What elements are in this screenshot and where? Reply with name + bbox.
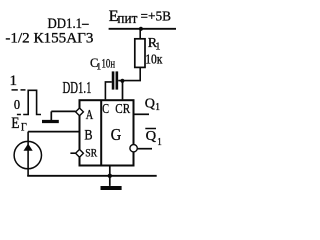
- svg-text:Г: Г: [21, 121, 27, 133]
- net Епит=+5В label: [109, 8, 171, 27]
- wire R1 bottom lead to node: [118, 67, 140, 80]
- capacitor C1 plates: [112, 71, 115, 89]
- svg-text:Q: Q: [145, 97, 155, 112]
- ground bottom bar: [101, 186, 122, 190]
- ground at pin A: [50, 111, 52, 120]
- svg-text:1: 1: [10, 73, 18, 89]
- svg-text:Е: Е: [11, 115, 19, 132]
- svg-text:пит: пит: [117, 11, 138, 27]
- wire generator vertical: [27, 132, 29, 176]
- resistor R1 body: [135, 39, 145, 68]
- wire input A from ground: [51, 110, 75, 112]
- op-amp U1: IC box K155AG3: [80, 100, 134, 165]
- wire C1 left lead to pin C: [105, 82, 111, 100]
- junction dot C1/R1/CR node: [120, 79, 124, 83]
- pulse waveform: [23, 90, 41, 114]
- svg-text:DD1.1: DD1.1: [63, 78, 92, 97]
- label С1 10н: [90, 56, 115, 72]
- wire output Q1: [135, 113, 150, 115]
- wire power rail: [109, 28, 176, 30]
- svg-text:A: A: [86, 108, 94, 123]
- dynamic input diamond pin A: [76, 108, 84, 116]
- wire bottom ground rail: [27, 175, 157, 177]
- wire output Q1bar: [137, 148, 152, 150]
- svg-text:=+5В: =+5В: [141, 10, 172, 25]
- generator arrow head: [24, 144, 33, 151]
- svg-text:1: 1: [155, 42, 160, 53]
- svg-text:Q: Q: [146, 129, 157, 144]
- label R1: [148, 36, 161, 53]
- junction dot power rail / R1: [139, 27, 143, 31]
- svg-text:CR: CR: [115, 102, 130, 117]
- label ЕГ: [11, 115, 27, 133]
- dashed level-0 line: [17, 114, 21, 116]
- junction dot bottom rail: [108, 174, 112, 178]
- dashed level-1 line: [12, 89, 18, 91]
- svg-text:0: 0: [14, 97, 20, 112]
- generator EГ circle: [14, 141, 41, 168]
- wire R1 top lead: [139, 29, 141, 39]
- svg-text:10н: 10н: [102, 56, 116, 70]
- svg-text:G: G: [111, 125, 122, 144]
- wire node to pin CR: [122, 81, 124, 100]
- svg-text:1: 1: [157, 137, 162, 148]
- svg-text:SR: SR: [85, 146, 97, 160]
- inversion circle output Q1bar: [130, 145, 137, 152]
- wire input B: [28, 131, 79, 133]
- svg-text:B: B: [84, 127, 92, 143]
- dynamic input diamond pin SR: [76, 149, 84, 157]
- svg-text:-1/2 К155АГ3: -1/2 К155АГ3: [5, 31, 93, 47]
- label Q1: [145, 97, 160, 114]
- svg-text:10к: 10к: [145, 53, 162, 68]
- IC divider line: [100, 100, 102, 165]
- label Q1bar with overline: [146, 129, 162, 148]
- wire SR stub: [70, 152, 75, 154]
- svg-text:1: 1: [155, 102, 160, 113]
- pin label C CR: [102, 102, 130, 117]
- wire IC bottom to ground: [109, 166, 111, 186]
- svg-text:C: C: [102, 102, 109, 117]
